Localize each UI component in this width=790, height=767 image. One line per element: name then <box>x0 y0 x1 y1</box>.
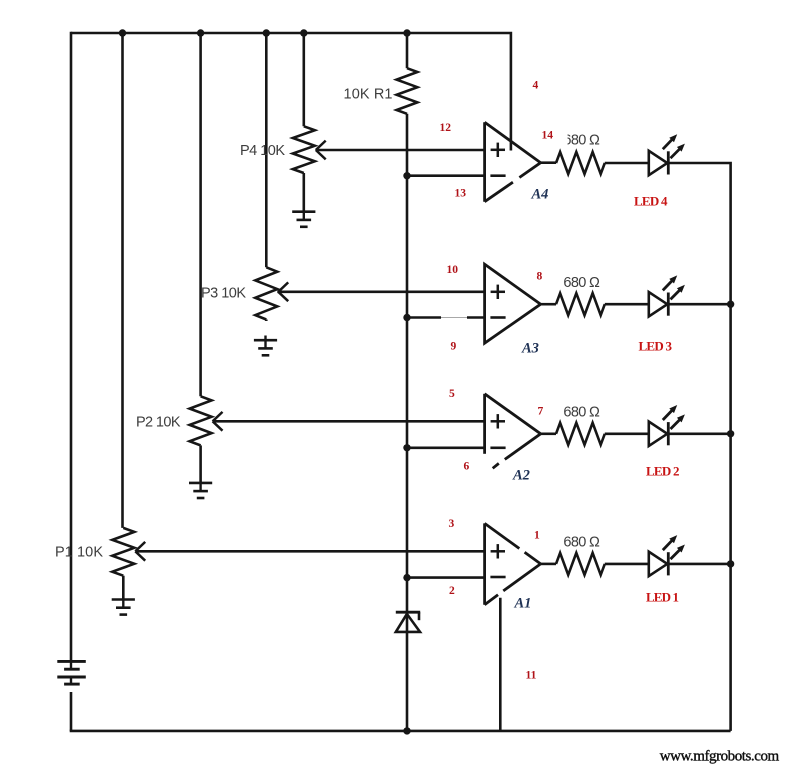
ground P3 <box>264 336 266 349</box>
wire A2 non-inverting input (P2 wiper) <box>213 420 485 423</box>
wire right LED bus <box>668 163 730 731</box>
wire R5 to LED1 <box>605 563 649 566</box>
wire A3 inverting input <box>407 316 441 319</box>
LED 4 <box>649 151 668 175</box>
op-amp A2 <box>483 394 486 454</box>
wire top bus with pin-4 drop <box>71 33 511 151</box>
wire A4 output <box>541 161 556 164</box>
svg-text:12: 12 <box>440 122 452 134</box>
wire rail to P4 <box>302 33 305 126</box>
svg-text:P2 10K: P2 10K <box>136 415 181 431</box>
svg-text:LED 4: LED 4 <box>634 194 668 209</box>
svg-text:LED 2: LED 2 <box>646 464 680 479</box>
resistor R5 680 <box>556 553 605 575</box>
potentiometer P2 10K <box>190 396 212 445</box>
svg-text:LED 1: LED 1 <box>646 590 679 605</box>
ground P1 <box>112 598 135 601</box>
svg-text:5: 5 <box>449 388 455 400</box>
wire A2 output <box>541 432 556 435</box>
svg-text:680 Ω: 680 Ω <box>563 405 600 421</box>
wire LED2 to right bus <box>668 432 730 435</box>
wire A1 non-inverting input (P1 wiper) <box>136 550 485 553</box>
svg-text:A3: A3 <box>521 341 539 357</box>
svg-text:14: 14 <box>542 130 554 142</box>
resistor R1 10K <box>397 68 418 114</box>
battery B1 <box>57 660 86 663</box>
svg-text:680 Ω: 680 Ω <box>563 275 600 291</box>
svg-text:680 Ω: 680 Ω <box>563 133 600 149</box>
svg-text:680 Ω: 680 Ω <box>563 535 600 551</box>
svg-text:2: 2 <box>449 585 455 597</box>
svg-text:www.mfgrobots.com: www.mfgrobots.com <box>660 749 780 765</box>
wire R4 to LED2 <box>605 432 649 435</box>
svg-text:A1: A1 <box>514 596 532 612</box>
svg-text:4: 4 <box>533 80 539 92</box>
resistor R4 680 <box>556 423 605 445</box>
svg-text:9: 9 <box>451 341 457 353</box>
LED 3 <box>649 292 668 316</box>
wire rail to P2 <box>199 33 202 396</box>
node signal rail junctions <box>403 172 410 179</box>
wire R2 to LED4 <box>605 162 649 165</box>
potentiometer P4 10K <box>293 126 315 173</box>
svg-text:13: 13 <box>455 188 467 200</box>
svg-text:1: 1 <box>534 530 540 542</box>
svg-text:A2: A2 <box>512 468 530 484</box>
ground P2 <box>189 482 212 485</box>
potentiometer P1 10K <box>112 528 134 576</box>
wiper arrow P3 <box>278 282 288 291</box>
wire R3 to LED3 <box>605 303 649 306</box>
svg-text:LED 3: LED 3 <box>639 339 673 354</box>
zener diode D1 <box>396 611 420 614</box>
op-amp A3 <box>485 264 541 343</box>
svg-text:7: 7 <box>538 406 544 418</box>
LED 2 <box>649 422 668 446</box>
wire A2 inverting input <box>407 446 485 449</box>
wire A1 output <box>541 563 556 566</box>
svg-text:10K R1: 10K R1 <box>344 87 393 103</box>
svg-text:10: 10 <box>447 264 459 276</box>
wiper arrow P2 <box>213 412 223 421</box>
wiper arrow P4 <box>316 141 326 150</box>
wire A1 pin 11 to bottom bus <box>499 598 502 731</box>
resistor R3 680 <box>556 293 605 315</box>
wire A1 inverting input <box>407 576 485 579</box>
svg-text:P1 10K: P1 10K <box>55 545 103 561</box>
svg-text:A4: A4 <box>531 187 549 203</box>
wire A4 inverting input <box>407 174 485 177</box>
wire LED1 to right bus <box>668 563 730 566</box>
svg-text:P3 10K: P3 10K <box>201 286 246 302</box>
svg-text:6: 6 <box>464 461 470 473</box>
wire A3 non-inverting input (P3 wiper) <box>277 290 484 293</box>
node right bus junctions <box>727 301 734 308</box>
op-amp A4 <box>483 122 486 202</box>
wire left supply rail <box>70 32 73 662</box>
svg-text:P4 10K: P4 10K <box>240 143 285 159</box>
wire A3 output <box>541 303 556 306</box>
wire LED3 to right bus <box>668 303 730 306</box>
wire rail to P1 <box>121 33 124 528</box>
op-amp A1 <box>483 523 486 604</box>
wire battery to bottom bus <box>70 692 73 731</box>
wire signal rail (R1 / zener chain) <box>406 33 409 68</box>
svg-text:3: 3 <box>449 518 455 530</box>
wire A4 non-inverting input (P4 wiper) <box>316 149 485 152</box>
svg-text:11: 11 <box>526 670 537 682</box>
LED 1 <box>649 552 668 576</box>
resistor R2 680 <box>556 152 605 174</box>
ground P4 <box>292 210 315 213</box>
wire rail to P3 <box>265 33 268 267</box>
node top bus junctions <box>119 29 126 36</box>
svg-text:8: 8 <box>537 271 543 283</box>
potentiometer P3 10K <box>255 267 277 319</box>
wire bottom bus <box>70 730 731 733</box>
wiper arrow P1 <box>135 542 145 551</box>
